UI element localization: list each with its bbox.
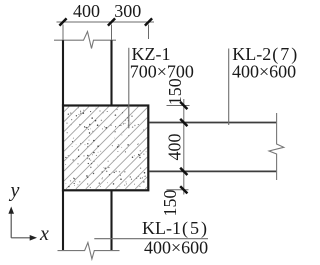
tick at x=111.5	[108, 18, 115, 25]
extension line x=148.5	[148, 25, 150, 40]
leader underline KL-1	[94, 238, 208, 240]
beam KL-1 lower right edge	[110, 190, 112, 250]
tick at x=148.5	[145, 18, 152, 25]
leader line KZ-1	[128, 48, 130, 129]
top break line (beam KL-1 upper cut)	[54, 32, 116, 49]
bottom break line (beam KL-1 lower cut)	[58, 243, 120, 260]
beam KL-1 upper right edge	[110, 40, 112, 105]
extension line column top (right)	[167, 105, 190, 107]
svg-text:y: y	[9, 180, 20, 202]
beam KL-1 upper left edge	[62, 40, 64, 105]
svg-text:400×600: 400×600	[144, 238, 208, 258]
tick at y=105.5	[180, 102, 187, 109]
column KZ-1 hatch lines	[64, 107, 147, 189]
axis x arrow line	[11, 237, 30, 239]
extension line x=63	[62, 25, 64, 41]
axis x arrowhead	[30, 235, 37, 241]
svg-text:x: x	[39, 223, 49, 245]
column KZ-1 concrete dots	[65, 107, 146, 188]
right break line (beam KL-2 cut)	[269, 113, 284, 180]
tick at y=122.5	[180, 119, 187, 126]
svg-text:KL-1(5): KL-1(5)	[142, 218, 207, 239]
svg-text:400×600: 400×600	[232, 61, 296, 81]
column KZ-1 outline	[63, 106, 148, 191]
right vertical dimension line	[183, 99, 185, 195]
beam KL-1 lower left edge	[62, 190, 64, 250]
axis y arrow line	[10, 213, 12, 238]
beam KL-2 bottom edge	[150, 170, 278, 172]
leader line KL-2	[228, 49, 230, 126]
tick at y=189.8	[180, 186, 187, 193]
tick at y=171.4	[180, 168, 187, 175]
svg-text:400: 400	[73, 1, 100, 21]
extension line column bottom (right)	[167, 189, 189, 191]
tick at x=63	[59, 18, 66, 25]
extension line x=111.5	[111, 25, 113, 41]
svg-text:150: 150	[165, 78, 185, 105]
top dimension line	[57, 21, 155, 23]
axis y arrowhead	[8, 207, 14, 214]
svg-text:150: 150	[160, 190, 180, 217]
beam KL-2 top edge	[150, 122, 278, 124]
svg-text:300: 300	[114, 1, 141, 21]
svg-text:400: 400	[165, 134, 185, 161]
